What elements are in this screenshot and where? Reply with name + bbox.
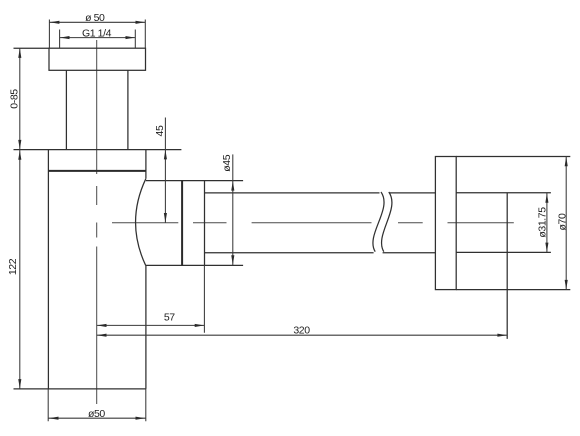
svg-text:57: 57 xyxy=(164,311,175,323)
svg-text:ø31.75: ø31.75 xyxy=(536,207,548,238)
svg-text:ø 50: ø 50 xyxy=(85,12,105,24)
svg-text:320: 320 xyxy=(293,325,310,337)
svg-text:122: 122 xyxy=(7,258,19,275)
svg-text:ø70: ø70 xyxy=(556,213,568,230)
svg-text:ø50: ø50 xyxy=(88,408,105,420)
svg-text:0-85: 0-85 xyxy=(8,89,20,109)
svg-text:ø45: ø45 xyxy=(221,154,233,171)
svg-text:G1 1/4: G1 1/4 xyxy=(82,28,112,40)
svg-text:45: 45 xyxy=(154,125,166,136)
